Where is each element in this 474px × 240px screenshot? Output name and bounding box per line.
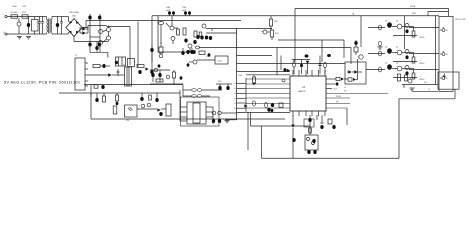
- svg-text:D1: D1: [396, 63, 398, 65]
- svg-text:D1: D1: [396, 21, 398, 23]
- svg-text:7x: 7x: [428, 89, 430, 91]
- svg-text:T4AH: T4AH: [12, 5, 17, 8]
- svg-text:4n: 4n: [446, 78, 448, 80]
- svg-text:SBY: SBY: [412, 13, 417, 15]
- svg-text:C8M: C8M: [166, 7, 170, 9]
- svg-text:o1: o1: [234, 93, 236, 95]
- svg-text:PSON: PSON: [336, 96, 342, 98]
- svg-text:L5R20: L5R20: [419, 79, 424, 81]
- svg-text:o1: o1: [234, 98, 236, 100]
- svg-text:7u: 7u: [344, 87, 346, 89]
- svg-text:Pd: Pd: [344, 91, 346, 93]
- svg-text:T2: T2: [75, 55, 77, 57]
- svg-text:4n: 4n: [446, 30, 448, 32]
- svg-text:L5R20: L5R20: [419, 37, 424, 39]
- svg-text:KA3511: KA3511: [298, 90, 306, 93]
- svg-text:T1: T1: [123, 65, 125, 67]
- svg-text:4n: 4n: [446, 54, 448, 56]
- svg-text:Q2: Q2: [385, 21, 387, 23]
- svg-text:o1: o1: [234, 103, 236, 105]
- svg-text:5V AEG LL1230. PCB PIN: 260111: 5V AEG LL1230. PCB PIN: 260111101: [4, 81, 80, 85]
- svg-text:Q2: Q2: [385, 63, 387, 65]
- svg-text:L5R20: L5R20: [419, 63, 424, 65]
- svg-text:Q2: Q2: [385, 47, 387, 49]
- svg-text:Vref: Vref: [334, 89, 338, 91]
- svg-text:GBU 8068: GBU 8068: [69, 12, 80, 14]
- svg-text:F1 4A: F1 4A: [11, 11, 17, 14]
- svg-text:BP 5V LOW: BP 5V LOW: [456, 19, 466, 21]
- svg-text:o1: o1: [234, 83, 236, 85]
- svg-text:o1: o1: [234, 108, 236, 110]
- svg-text:D1: D1: [396, 47, 398, 49]
- svg-text:o1: o1: [234, 88, 236, 90]
- svg-text:D30: D30: [218, 81, 221, 83]
- svg-text:C9M: C9M: [182, 7, 186, 9]
- svg-text:5VSB: 5VSB: [410, 6, 416, 8]
- svg-text:R1: R1: [206, 56, 208, 58]
